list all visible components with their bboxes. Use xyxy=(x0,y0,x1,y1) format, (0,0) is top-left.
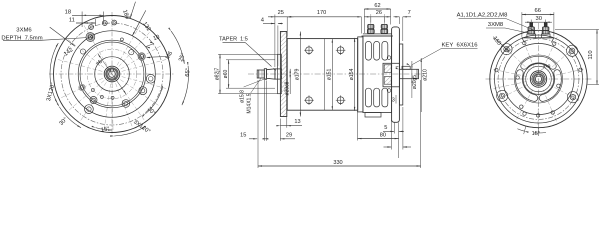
svg-text:80: 80 xyxy=(380,133,386,139)
svg-text:3XM6: 3XM6 xyxy=(16,28,32,34)
svg-text:A1,1D1,A2,2D2,M8: A1,1D1,A2,2D2,M8 xyxy=(457,13,508,19)
svg-text:ø210: ø210 xyxy=(422,69,428,81)
svg-text:13: 13 xyxy=(294,119,300,125)
svg-text:7: 7 xyxy=(408,10,411,16)
svg-text:330: 330 xyxy=(333,160,342,166)
svg-text:62: 62 xyxy=(374,3,380,9)
svg-text:65°: 65° xyxy=(185,68,192,77)
svg-text:4x9: 4x9 xyxy=(543,64,551,70)
svg-text:3XM8: 3XM8 xyxy=(488,22,504,28)
svg-text:TAPER 1:5: TAPER 1:5 xyxy=(219,36,248,42)
svg-text:ø60: ø60 xyxy=(223,69,229,78)
svg-text:110: 110 xyxy=(588,50,594,59)
svg-text:ø20c8: ø20c8 xyxy=(284,81,290,95)
svg-text:ø179: ø179 xyxy=(295,68,301,80)
svg-text:KEY 6X6X16: KEY 6X6X16 xyxy=(441,42,478,48)
svg-text:11: 11 xyxy=(69,17,75,23)
svg-text:15°: 15° xyxy=(532,131,540,137)
svg-text:18: 18 xyxy=(65,9,71,15)
svg-text:29: 29 xyxy=(286,133,292,139)
svg-text:26: 26 xyxy=(376,10,382,16)
svg-text:ø151: ø151 xyxy=(327,68,333,80)
svg-text:170: 170 xyxy=(317,10,326,16)
svg-text:ø15.8: ø15.8 xyxy=(240,90,246,103)
svg-text:ø20g5: ø20g5 xyxy=(412,75,418,89)
svg-text:15°: 15° xyxy=(101,126,111,133)
svg-text:30: 30 xyxy=(535,16,541,22)
svg-text:ø82j7: ø82j7 xyxy=(214,68,220,81)
svg-text:25: 25 xyxy=(278,10,284,16)
svg-text:ø154: ø154 xyxy=(349,68,355,80)
svg-text:15: 15 xyxy=(240,133,246,139)
svg-text:66: 66 xyxy=(534,8,540,14)
svg-text:3: 3 xyxy=(392,98,395,104)
svg-text:M14X1.5: M14X1.5 xyxy=(247,93,253,113)
svg-text:5: 5 xyxy=(384,125,387,131)
